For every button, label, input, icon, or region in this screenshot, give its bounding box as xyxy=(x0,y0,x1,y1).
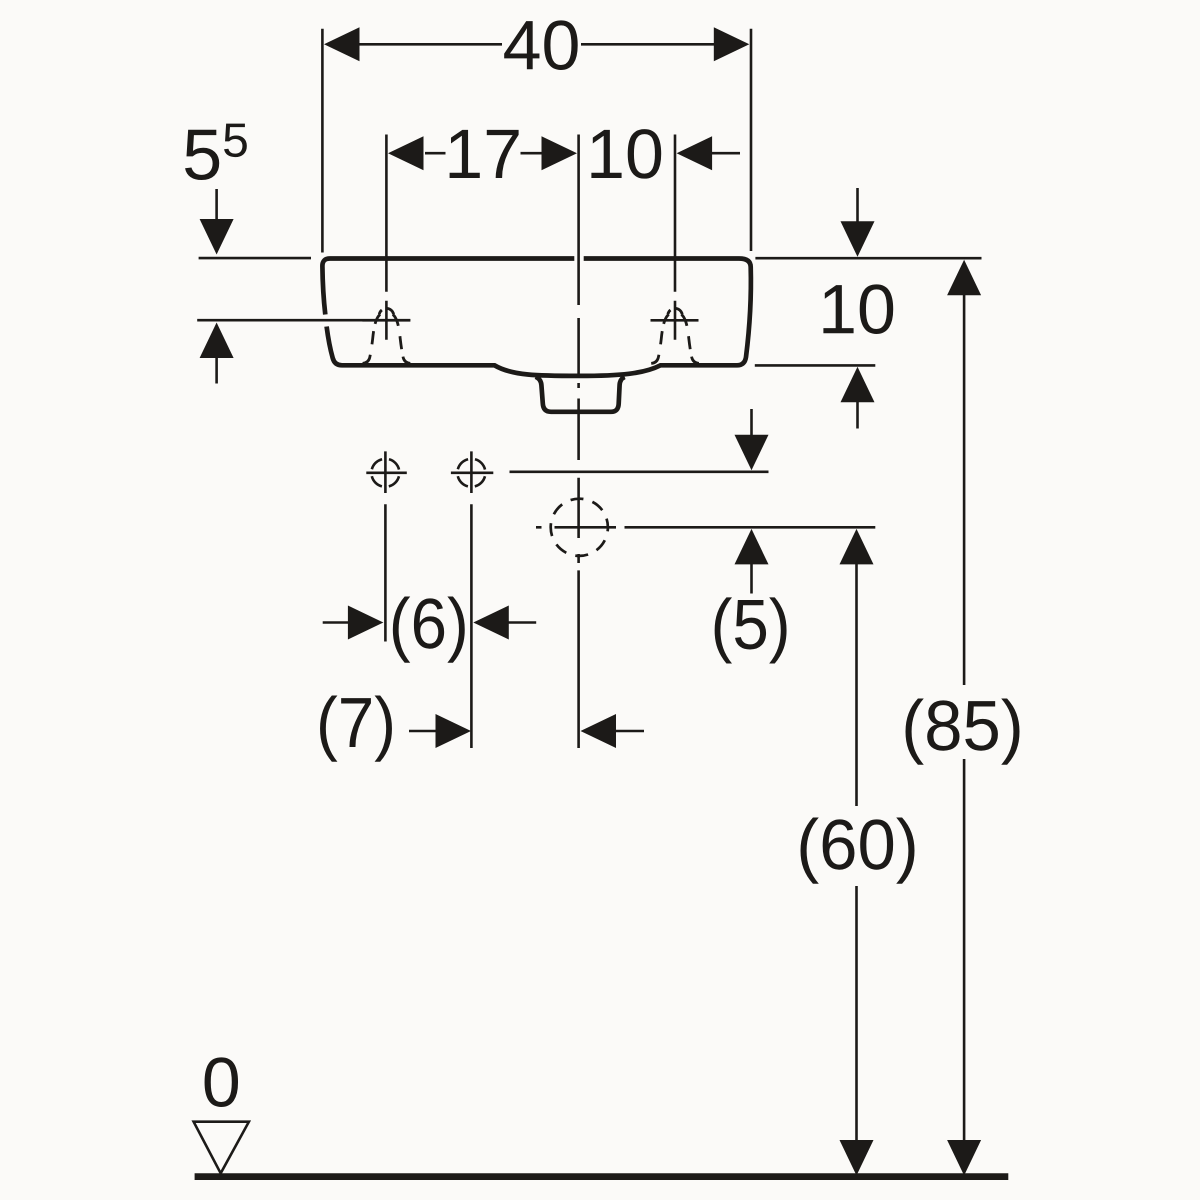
dimension (85): lower stem xyxy=(963,759,966,1140)
washbasin outline: left edge lower + bottom-left corner xyxy=(327,327,342,366)
dimension 40: label xyxy=(504,20,578,70)
dimension (7): left arrow pointing right xyxy=(409,730,439,733)
dimension 17: label xyxy=(450,130,519,178)
center line x=578.6 (dash-dot axis) xyxy=(577,135,580,749)
dimension (60): lower stem xyxy=(855,886,858,1140)
datum triangle xyxy=(194,1122,249,1174)
dimension 10right: label xyxy=(823,284,893,334)
dimension (85): down arrow at floor xyxy=(947,1140,981,1176)
dimension (6): label xyxy=(393,597,465,663)
dimension 10right: up arrow xyxy=(841,367,875,403)
dimension 5.5: up arrow xyxy=(200,323,234,359)
fixing hole left: cross xyxy=(366,451,407,493)
floor line xyxy=(195,1173,1009,1180)
tap hole right: dashed bell xyxy=(651,308,699,363)
washbasin outline: top edge xyxy=(330,256,739,261)
drain axis reference line (y=527.3) xyxy=(625,526,876,529)
fixing holes height reference line (y=471.8) xyxy=(510,470,769,473)
dimension (60): up arrow at drain axis xyxy=(840,529,874,565)
fixing hole right: extension line down xyxy=(470,504,473,748)
dimension 5r: down arrow onto y=471.8 xyxy=(750,409,753,436)
dimension 10right: down arrow xyxy=(856,188,859,222)
dimension 40: extension line left xyxy=(321,29,324,253)
drain hole: dashed circle xyxy=(551,499,608,556)
dimension 5.5: label xyxy=(185,130,219,180)
dimension 17: left arrow xyxy=(388,136,424,170)
dimension 40: dim line xyxy=(357,43,715,46)
dimension (7): right arrow pointing left xyxy=(581,714,617,748)
dimension 10right: lower reference line (y=365.4) xyxy=(755,364,876,367)
dimension (6): right arrow pointing left xyxy=(473,606,509,640)
dimension (60): upper stem xyxy=(855,564,858,807)
dimension 10right: upper reference line (y=258.2) xyxy=(755,257,981,260)
drain hole: horizontal axis dashes xyxy=(536,526,616,529)
washbasin outline: bottom edge with bowl dip xyxy=(342,365,737,376)
dimension (85): label xyxy=(906,699,1020,765)
dimension 17: extension line (left tap axis) xyxy=(385,135,388,292)
dimension 5.5: down arrow xyxy=(215,189,218,220)
dimension (5): up arrow xyxy=(735,529,769,565)
fixing hole right: dashed circle xyxy=(457,459,485,487)
dimension 10top: outside stub xyxy=(710,152,740,155)
dimension (60): down arrow at floor xyxy=(840,1140,874,1176)
fixing hole left: extension line down xyxy=(384,504,387,641)
washbasin outline: top-right corner + right edge xyxy=(737,259,751,366)
dimension (6): left arrow pointing right xyxy=(323,621,350,624)
dimension 40: extension line right xyxy=(750,29,753,251)
dimension 10top: label xyxy=(591,129,661,179)
dimension 40: left arrow xyxy=(324,27,360,61)
drain tailpiece xyxy=(536,377,625,412)
dimension 10top: outside arrow xyxy=(677,136,713,170)
dimension 17: right arrow xyxy=(542,136,578,170)
tap hole left: cross xyxy=(362,301,410,340)
tap hole left: dashed bell xyxy=(363,308,411,363)
dimension (7): label xyxy=(320,696,392,762)
dimension 40: right arrow xyxy=(714,27,750,61)
dimension (85): up arrow at basin top level xyxy=(947,260,981,296)
tap hole right: cross xyxy=(651,301,699,340)
dimension (5): label xyxy=(715,597,787,663)
dimension 17: dim line stubs xyxy=(425,152,542,155)
datum zero label xyxy=(205,1057,238,1107)
dimension (60): label xyxy=(801,818,915,884)
fixing hole left: dashed circle xyxy=(371,459,399,487)
fixing hole right: cross xyxy=(451,451,493,493)
tap axis reference line (y=320) xyxy=(197,319,410,322)
dimension (85): upper stem xyxy=(963,294,966,685)
washbasin outline: top-left corner + left edge upper xyxy=(322,259,330,315)
dimension 10top: extension line (right tap axis) xyxy=(674,135,677,292)
dimension 5.5: upper reference line xyxy=(199,257,311,260)
